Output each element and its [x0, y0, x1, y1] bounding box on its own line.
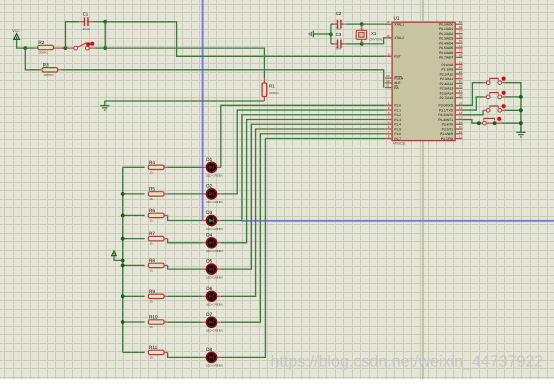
svg-text:1k: 1k	[150, 325, 154, 329]
lead R4 right	[164, 166, 168, 168]
wire P1.5 to D6	[221, 129, 385, 296]
svg-text:C3: C3	[336, 32, 342, 37]
junction node C	[103, 20, 107, 24]
svg-text:PSEN: PSEN	[394, 76, 404, 80]
pin 4 P1.3 stub	[385, 119, 392, 121]
ground (buttons)	[516, 128, 525, 137]
svg-text:1k: 1k	[150, 268, 154, 272]
svg-text:LED-GREEN: LED-GREEN	[206, 275, 223, 279]
pin 37 P0.2/AD2 stub	[455, 33, 462, 35]
svg-text:33: 33	[459, 49, 463, 53]
svg-text:P0.2/AD2: P0.2/AD2	[439, 32, 453, 36]
pin 2 P1.1 stub	[385, 109, 392, 111]
terminal K4 left	[483, 121, 487, 125]
pin 19 XTAL1 stub	[385, 23, 392, 25]
wire R10 to D7	[168, 321, 203, 323]
svg-text:29: 29	[386, 74, 390, 78]
pushbutton K2 cap	[489, 92, 498, 94]
lead K4 right	[486, 122, 501, 124]
LED D6	[202, 291, 221, 301]
lead R8 right	[164, 264, 168, 266]
svg-text:CRYSTAL: CRYSTAL	[369, 37, 383, 41]
svg-text:LED-GREEN: LED-GREEN	[206, 249, 223, 253]
svg-text:VCC: VCC	[12, 29, 20, 33]
junction node F	[360, 22, 364, 26]
svg-text:R10: R10	[149, 315, 158, 320]
wire to C3	[331, 43, 335, 45]
resistor R11	[148, 350, 164, 354]
pin 10 P3.0/RXD stub	[455, 104, 462, 106]
svg-text:X1: X1	[371, 31, 377, 36]
svg-text:34: 34	[459, 44, 463, 48]
svg-text:P3.5/T1: P3.5/T1	[442, 127, 454, 131]
lead R9 right	[164, 295, 168, 297]
lead R5 right	[164, 193, 168, 195]
lead R2 left	[34, 47, 37, 49]
svg-text:P3.7/RD: P3.7/RD	[441, 137, 454, 141]
svg-text:LED-GREEN: LED-GREEN	[206, 200, 223, 204]
svg-text:R7: R7	[149, 231, 155, 236]
svg-text:AT89C51: AT89C51	[393, 142, 406, 146]
svg-text:1k: 1k	[150, 355, 154, 359]
svg-text:P0.5/AD5: P0.5/AD5	[439, 46, 453, 50]
junction bus/R8	[121, 264, 125, 268]
pushbutton K1 cap	[489, 77, 498, 79]
wire node C down to node D	[104, 22, 106, 48]
pushbutton K2 leads	[483, 96, 486, 98]
svg-text:D2: D2	[206, 184, 212, 189]
wire node E vertical	[330, 24, 332, 44]
svg-text:P3.0/RXD: P3.0/RXD	[439, 104, 454, 108]
svg-text:25: 25	[459, 79, 463, 83]
resistor R8	[148, 263, 164, 267]
pushbutton K3 terminals	[486, 108, 490, 112]
svg-text:LED-GREEN: LED-GREEN	[206, 303, 223, 307]
pin 32 P0.7/AD7 stub	[455, 56, 462, 58]
svg-text:C2: C2	[336, 11, 342, 16]
wire P3.2 to button3	[462, 110, 483, 115]
svg-text:P3.2/INT0: P3.2/INT0	[438, 113, 453, 117]
pin 5 P1.4 stub	[385, 123, 392, 125]
LED D8	[202, 352, 221, 362]
pin 35 P0.4/AD4 stub	[455, 42, 462, 44]
svg-text:P2.2/A10: P2.2/A10	[440, 72, 454, 76]
junction node B	[64, 46, 68, 50]
wire node A to R2	[25, 47, 34, 49]
svg-text:D4: D4	[206, 232, 212, 237]
wire node F to XTAL1	[362, 23, 385, 25]
resistor R3	[42, 68, 58, 72]
LED D3	[202, 216, 221, 226]
svg-text:D1: D1	[206, 157, 212, 162]
sheet divider grid line	[422, 0, 424, 379]
pin 23 P2.2/A10 stub	[455, 73, 462, 75]
wire C3 to node G	[346, 43, 362, 45]
pushbutton K2 actuator	[502, 91, 506, 95]
svg-text:P3.1/TXD: P3.1/TXD	[439, 108, 454, 112]
wire R9 to D6	[168, 295, 203, 297]
svg-text:P1.6: P1.6	[394, 132, 401, 136]
svg-text:LED-GREEN: LED-GREEN	[206, 227, 223, 231]
junction rail/button4	[519, 121, 523, 125]
wire bus to R8	[123, 264, 145, 266]
wire power to bus	[114, 256, 123, 261]
pin 22 P2.1/A9 stub	[455, 68, 462, 70]
pushbutton K1 actuator	[502, 77, 506, 81]
svg-text:XTAL2: XTAL2	[394, 36, 404, 40]
wire R6 jog to D3	[168, 215, 203, 220]
svg-text:P2.4/A12: P2.4/A12	[440, 82, 454, 86]
switch SW1 leads	[66, 47, 74, 49]
svg-text:18: 18	[386, 34, 390, 38]
junction bus/power	[121, 259, 125, 263]
svg-text:P2.0/A8: P2.0/A8	[441, 63, 453, 67]
cursor guide vertical (blue)	[202, 0, 204, 221]
pushbutton K3 actuator	[502, 104, 506, 108]
pin 13 P3.3/INT1 stub	[455, 119, 462, 121]
svg-text:31: 31	[386, 84, 390, 88]
svg-text:LED-GREEN: LED-GREEN	[206, 364, 223, 368]
junction K4 left	[477, 121, 481, 125]
svg-text:P2.7/A15: P2.7/A15	[440, 96, 454, 100]
pin 24 P2.3/A11 stub	[455, 78, 462, 80]
svg-text:10: 10	[459, 101, 463, 105]
pin 27 P2.6/A14 stub	[455, 92, 462, 94]
junction rail/button2	[519, 95, 523, 99]
lead R6 right	[164, 214, 168, 216]
svg-text:37: 37	[459, 30, 463, 34]
wire bus to R10	[123, 321, 145, 323]
pin 36 P0.3/AD3 stub	[455, 37, 462, 39]
svg-text:24: 24	[459, 75, 463, 79]
svg-text:D7: D7	[206, 312, 212, 317]
svg-text:38: 38	[459, 25, 463, 29]
svg-text:1k: 1k	[150, 197, 154, 201]
pin 14 P3.4/T0 stub	[455, 123, 462, 125]
pin 25 P2.4/A12 stub	[455, 82, 462, 84]
wire button4 to rail	[501, 122, 521, 124]
svg-text:ALE: ALE	[394, 81, 401, 85]
pin 8 P1.7 stub	[385, 138, 392, 140]
pin 39 P0.0/AD0 stub	[455, 23, 462, 25]
svg-text:1k: 1k	[150, 170, 154, 174]
junction bus/R7	[121, 237, 125, 241]
lead R11 right	[164, 351, 168, 353]
pushbutton K4 actuator	[497, 117, 501, 121]
pin 6 P1.5 stub	[385, 128, 392, 130]
wire VCC to node A	[17, 39, 26, 48]
svg-text:D5: D5	[206, 259, 212, 264]
junction K4 right	[493, 121, 497, 125]
wire P3.3 to button4	[462, 120, 479, 124]
svg-text:200R1: 200R1	[39, 51, 48, 55]
pin 11 P3.1/TXD stub	[455, 109, 462, 111]
junction bus/R10	[121, 320, 125, 324]
resistor R10	[148, 320, 164, 324]
capacitor C1 plates	[84, 17, 86, 26]
capacitor C2 leads	[332, 23, 337, 25]
wire node D to R1 top	[105, 48, 264, 78]
wire button2 to rail	[505, 96, 521, 98]
svg-text:P1.3: P1.3	[394, 118, 401, 122]
wire node G to XTAL2	[362, 38, 385, 44]
wire P1.4 to D5	[221, 124, 385, 269]
power terminal VCC	[14, 34, 20, 40]
wire bus to R7	[123, 238, 145, 240]
svg-text:P0.3/AD3: P0.3/AD3	[439, 37, 453, 41]
svg-text:P1.4: P1.4	[394, 123, 401, 127]
ground (reset net)	[100, 101, 109, 110]
junction node D	[103, 46, 107, 50]
svg-text:R2: R2	[38, 40, 44, 45]
svg-text:R11: R11	[149, 345, 158, 350]
pin 16 P3.6/WR stub	[455, 133, 462, 135]
pin 18 XTAL2 stub	[385, 37, 392, 39]
wire R8 jog to D5	[168, 265, 203, 269]
resistor R6	[148, 213, 164, 217]
svg-text:P1.5: P1.5	[394, 127, 401, 131]
svg-text:11: 11	[459, 106, 462, 110]
svg-text:1k: 1k	[150, 218, 154, 222]
capacitor C1 leads	[79, 21, 84, 23]
pin 15 P3.5/T1 stub	[455, 128, 462, 130]
svg-text:https://blog.csdn.net/weixin_4: https://blog.csdn.net/weixin_44737922	[271, 353, 544, 371]
svg-text:P1.7: P1.7	[394, 137, 401, 141]
pin 17 P3.7/RD stub	[455, 138, 462, 140]
resistor bus vertical (left)	[122, 167, 124, 352]
wire R4 to D1	[168, 166, 203, 168]
pin 29 PSEN stub	[385, 77, 392, 79]
wire node B up to C1	[66, 22, 80, 48]
resistor R7	[148, 236, 164, 240]
svg-text:RST: RST	[394, 55, 401, 59]
junction rail/button3	[519, 108, 523, 112]
svg-text:39: 39	[459, 20, 463, 24]
svg-text:R3: R3	[43, 62, 49, 67]
svg-text:D3: D3	[206, 210, 212, 215]
pin 31 EA stub	[385, 87, 392, 89]
svg-text:19: 19	[386, 20, 390, 24]
svg-text:14: 14	[459, 120, 463, 124]
svg-text:1k: 1k	[150, 242, 154, 246]
svg-text:12: 12	[459, 111, 463, 115]
pin 9 RST stub	[385, 55, 392, 57]
wire button3 to rail	[505, 109, 521, 111]
svg-text:22: 22	[459, 65, 463, 69]
wire R2 to node B	[62, 47, 66, 49]
pushbutton K1 leads	[483, 82, 486, 84]
capacitor C2 plates	[337, 20, 339, 29]
pin 26 P2.5/A13 stub	[455, 87, 462, 89]
capacitor C3 plates	[337, 40, 339, 49]
svg-text:D8: D8	[206, 347, 212, 352]
svg-text:17: 17	[459, 135, 463, 139]
svg-text:P3.4/T0: P3.4/T0	[442, 123, 454, 127]
crystal X1	[356, 24, 366, 44]
pin 38 P0.1/AD1 stub	[455, 28, 462, 30]
resistor R1	[263, 78, 265, 83]
svg-text:LED-GREEN: LED-GREEN	[206, 174, 223, 178]
ground (crystal, rotated left)	[309, 31, 317, 38]
pin 7 P1.6 stub	[385, 133, 392, 135]
wire to C2	[331, 23, 335, 25]
svg-text:30u: 30u	[336, 26, 341, 30]
svg-text:21: 21	[459, 61, 463, 65]
svg-text:P0.7/AD7: P0.7/AD7	[439, 56, 453, 60]
pushbutton K3 leads	[483, 109, 486, 111]
lead R10 right	[164, 321, 168, 323]
IC U1 AT89C51 body	[392, 22, 455, 140]
svg-text:XTAL1: XTAL1	[394, 23, 404, 27]
lead R2 right	[54, 47, 62, 49]
wire C2 to node F	[346, 23, 362, 25]
svg-text:P0.1/AD1: P0.1/AD1	[439, 27, 453, 31]
svg-text:16: 16	[459, 130, 463, 134]
junction node A	[23, 46, 27, 50]
wire R5 to D2	[168, 193, 203, 195]
LED D2	[202, 189, 221, 199]
resistor R2	[38, 45, 54, 49]
resistor R4	[148, 165, 164, 169]
svg-text:30u: 30u	[336, 47, 341, 51]
svg-text:R5: R5	[149, 187, 155, 192]
svg-text:LED-GREEN: LED-GREEN	[206, 329, 223, 333]
svg-text:35: 35	[459, 39, 463, 43]
junction bus/R9	[121, 294, 125, 298]
svg-text:28: 28	[459, 94, 463, 98]
wire bus to R11	[123, 351, 145, 353]
svg-text:P2.1/A9: P2.1/A9	[441, 68, 453, 72]
svg-text:32: 32	[459, 53, 463, 57]
wire R7 jog to D4	[168, 239, 203, 243]
resistor R9	[148, 294, 164, 298]
switch SW1 actuator	[86, 42, 90, 46]
power terminal (LED bus)	[112, 251, 117, 256]
svg-text:1000R1: 1000R1	[269, 91, 279, 95]
pin 3 P1.2 stub	[385, 114, 392, 116]
svg-text:P3.6/WR: P3.6/WR	[440, 132, 454, 136]
wire bus to R6	[123, 214, 145, 216]
LED D4	[202, 238, 221, 248]
svg-text:R4: R4	[149, 160, 155, 165]
svg-text:1000R1: 1000R1	[43, 73, 54, 77]
svg-text:C1: C1	[83, 12, 89, 17]
LED D5	[202, 264, 221, 274]
pushbutton K2 terminals	[486, 95, 490, 99]
wire P1.7 to D8	[221, 139, 385, 358]
svg-text:22.0u: 22.0u	[83, 27, 91, 31]
svg-text:P1.1: P1.1	[394, 108, 401, 112]
LED D7	[202, 317, 221, 327]
svg-text:U1: U1	[394, 16, 400, 21]
wire R3 to PSEN/ALE/EA	[62, 70, 384, 88]
resistor R5	[148, 192, 164, 196]
wire node C to RST	[105, 22, 385, 57]
svg-text:R8: R8	[149, 258, 155, 263]
svg-text:P0.6/AD6: P0.6/AD6	[439, 51, 453, 55]
pin 28 P2.7/A15 stub	[455, 97, 462, 99]
junction bus/R6	[121, 214, 125, 218]
switch SW1 terminals	[74, 46, 78, 50]
svg-text:P2.6/A14: P2.6/A14	[440, 91, 454, 95]
wire P1.1 to D2	[221, 110, 385, 194]
svg-text:P1.2: P1.2	[394, 113, 401, 117]
wire button1 to ground rail	[505, 83, 521, 132]
pushbutton K1 terminals	[486, 81, 490, 85]
capacitor C3 leads	[332, 43, 337, 45]
svg-text:23: 23	[459, 70, 463, 74]
lead R3 right	[58, 69, 62, 71]
svg-text:26: 26	[459, 84, 463, 88]
pushbutton K3 cap	[489, 105, 498, 107]
junction node G	[360, 42, 364, 46]
wire C1 to node C	[93, 21, 105, 23]
svg-text:P0.0/AD0: P0.0/AD0	[439, 23, 453, 27]
wire R11 jog to D8	[168, 352, 203, 357]
svg-text:P2.5/A13: P2.5/A13	[440, 87, 454, 91]
pin 30 ALE stub	[385, 82, 392, 84]
svg-text:27: 27	[459, 89, 463, 93]
pin 21 P2.0/A8 stub	[455, 64, 462, 66]
svg-text:P2.3/A11: P2.3/A11	[440, 77, 453, 81]
svg-text:R1: R1	[269, 84, 275, 89]
cursor guide horizontal (blue)	[241, 220, 554, 222]
wire P1.3 to D4	[221, 120, 385, 243]
wire bus to R9	[123, 295, 145, 297]
LED D1	[202, 162, 221, 172]
wire bus to R4	[123, 166, 145, 168]
lead K4 left	[479, 122, 483, 124]
svg-text:R6: R6	[149, 208, 155, 213]
junction bus/R5	[121, 192, 125, 196]
svg-text:R9: R9	[149, 289, 155, 294]
junction node E	[329, 32, 333, 36]
switch SW1 lever	[77, 43, 87, 48]
svg-text:15: 15	[459, 125, 463, 129]
pin 1 P1.0 stub	[385, 104, 392, 106]
pin 34 P0.5/AD5 stub	[455, 47, 462, 49]
svg-text:30: 30	[386, 79, 390, 83]
pin 12 P3.2/INT0 stub	[455, 114, 462, 116]
wire P1.6 to D7	[221, 134, 385, 322]
wire R1 bottom to ground	[105, 100, 265, 102]
svg-text:13: 13	[459, 116, 463, 120]
svg-text:D6: D6	[206, 286, 212, 291]
wire P1.0 to D1	[221, 105, 385, 167]
pushbutton K4 (shifted)	[483, 117, 495, 119]
pin 33 P0.6/AD6 stub	[455, 52, 462, 54]
wire crystal ground to node E	[317, 33, 331, 35]
svg-text:36: 36	[459, 34, 463, 38]
wire node A down to R3	[25, 48, 41, 70]
lead R7 right	[164, 238, 168, 240]
wire P1.2 to D3	[221, 115, 385, 221]
svg-text:P3.3/INT1: P3.3/INT1	[438, 118, 453, 122]
svg-text:P0.4/AD4: P0.4/AD4	[439, 41, 453, 45]
wire P3.1 to button2	[462, 97, 483, 110]
svg-text:1k: 1k	[150, 299, 154, 303]
wire bus to R5	[123, 193, 145, 195]
wire P3.0 to button1	[462, 83, 483, 106]
svg-text:P1.0: P1.0	[394, 104, 401, 108]
